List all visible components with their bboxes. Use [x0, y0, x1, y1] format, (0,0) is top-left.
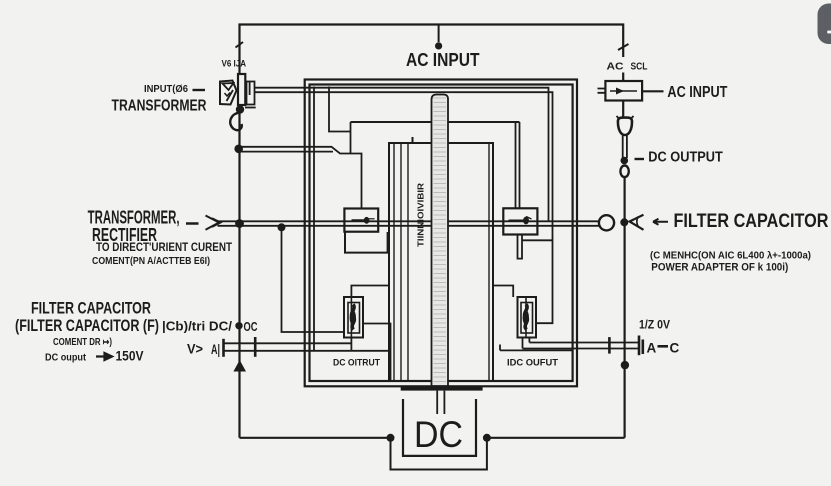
- rectifier D2 box: [503, 208, 537, 234]
- wire Q1 out right: [363, 324, 391, 382]
- wire C2 lower: [523, 348, 640, 350]
- wire Q1 bottom stub: [350, 338, 352, 351]
- wire Q2 bottom stub a: [522, 338, 524, 349]
- svg-text:AC INPUT: AC INPUT: [667, 84, 727, 101]
- svg-text:INPUT(Ø6: INPUT(Ø6: [144, 83, 188, 95]
- wire bottom rail right: [487, 437, 625, 439]
- svg-text:FILTER CAPACITOR: FILTER CAPACITOR: [31, 299, 151, 318]
- node AC input stub: [438, 25, 440, 42]
- junction dot top center: [435, 42, 442, 49]
- svg-text:C: C: [670, 341, 680, 356]
- AC inlet stub left: [598, 89, 606, 93]
- AC inlet box right: [605, 81, 642, 101]
- winding top tick: [412, 137, 414, 143]
- arrow chevron small: [212, 218, 221, 227]
- fuse F1 bracket inner pin: [249, 82, 251, 96]
- rectifier D1 sub frame: [345, 232, 388, 253]
- DC block U box: [403, 399, 476, 456]
- capacitor C1 plate right: [254, 337, 257, 357]
- fuse F1 v mark: [225, 93, 231, 97]
- AC inlet arrow: [616, 88, 624, 95]
- svg-text:V6 IJA: V6 IJA: [222, 59, 247, 69]
- node main-left crossing: [235, 219, 244, 228]
- node B on main wire: [278, 223, 286, 231]
- svg-text:A|: A|: [211, 341, 220, 357]
- svg-text:AC INPUT: AC INPUT: [406, 50, 480, 70]
- transistor Q2 interior wire: [525, 297, 527, 338]
- transistor Q2 blob: [523, 310, 529, 325]
- rectifier D2 lead: [509, 220, 529, 222]
- wire bracket branch: [329, 87, 351, 132]
- fuse F1 body pentagon: [220, 81, 237, 105]
- transistor Q1 symbol: [352, 305, 355, 330]
- wire main upper: [218, 220, 599, 222]
- wire right panel top: [500, 345, 573, 351]
- wire Q1 top link: [351, 286, 389, 298]
- wire right column upper: [622, 101, 624, 119]
- crow foot curl: [637, 217, 639, 228]
- arrow left filter label: [653, 219, 668, 225]
- node right column lower: [621, 361, 629, 369]
- svg-text:DC ouput: DC ouput: [45, 353, 87, 364]
- wire fuse upper: [255, 88, 549, 222]
- lamp L1 horn right: [630, 116, 633, 120]
- wire fuse lower: [255, 92, 553, 240]
- svg-text:FILTER CAPACITOR: FILTER CAPACITOR: [674, 211, 829, 232]
- UI tab top right: [818, 4, 831, 45]
- rectifier D1 lead right: [368, 218, 375, 220]
- rectifier D1 lead: [352, 219, 369, 221]
- tick on right top wire: [618, 44, 629, 50]
- DC block lower loop: [391, 438, 487, 470]
- transistor Q2 symbol: [525, 305, 528, 330]
- wire jog lower: [240, 151, 334, 153]
- lamp L1 horn left: [617, 116, 620, 120]
- svg-text:150V: 150V: [116, 348, 145, 364]
- transistor Q1 blob: [350, 310, 356, 325]
- wire Q2 top link: [493, 286, 513, 298]
- wire mid box left edge: [350, 122, 352, 154]
- wire bottom rail left: [240, 437, 391, 439]
- wire Q2 bottom stub b: [528, 338, 530, 343]
- dash DC output label: [635, 158, 645, 160]
- fuse F1 diagonal: [227, 90, 234, 101]
- svg-text:|Cb)/tri DC/: |Cb)/tri DC/: [162, 320, 233, 334]
- svg-text:TIINNIOIVIBIR: TIINNIOIVIBIR: [417, 183, 426, 247]
- fuse F1 bracket: [247, 82, 255, 105]
- rectifier D1 dot: [364, 217, 370, 224]
- winding box: [389, 143, 493, 381]
- transformer T1 hatch: [434, 98, 447, 382]
- transistor Q2 inner box: [521, 303, 533, 334]
- svg-text:TRANSFORMER: TRANSFORMER: [112, 97, 207, 114]
- capacitor C2 plate left: [608, 337, 611, 354]
- svg-text:DC: DC: [414, 414, 463, 455]
- AC inlet lead: [610, 90, 637, 92]
- transistor Q1 interior wire: [350, 297, 352, 338]
- capacitor C1 plate left: [222, 339, 225, 357]
- wire lamp pair: [623, 135, 627, 158]
- enclosure box outer: [305, 80, 577, 387]
- AC inlet dash right: [642, 90, 663, 92]
- tick on left top wire: [236, 42, 244, 48]
- svg-text:SCL: SCL: [631, 60, 648, 72]
- svg-text:OC: OC: [244, 319, 258, 334]
- wire main lower: [218, 225, 599, 227]
- wire right column mid: [623, 177, 625, 438]
- svg-text:1/Z 0V: 1/Z 0V: [639, 320, 670, 332]
- filter capacitor circle: [599, 215, 614, 230]
- wire C1 upper: [224, 342, 352, 344]
- transistor Q1 inner box: [348, 303, 360, 334]
- svg-text:COMENT DR ↦): COMENT DR ↦): [53, 337, 112, 348]
- wire mid box top: [351, 121, 520, 123]
- rectifier D2 dot: [523, 217, 529, 225]
- svg-text:IDC OUFUT: IDC OUFUT: [507, 358, 558, 369]
- svg-text:(C MENHC(ON AIC 6L400 λ+-1000a: (C MENHC(ON AIC 6L400 λ+-1000a): [650, 250, 811, 262]
- node DC right: [483, 434, 491, 442]
- wire from node B down to transistor Q1: [282, 227, 345, 332]
- wire stub right of node: [245, 107, 256, 109]
- svg-text:DC OUTPUT: DC OUTPUT: [648, 150, 723, 166]
- node DC output: [621, 157, 629, 165]
- fuse F1 bar: [238, 74, 245, 105]
- wire top rail: [240, 25, 624, 82]
- crow foot: [630, 215, 644, 230]
- winding lines: [394, 143, 489, 381]
- wire inner vertical x314: [313, 87, 315, 351]
- arrow chevron large: [206, 216, 220, 230]
- transistor Q2 box: [518, 297, 537, 338]
- node DC left: [387, 434, 395, 442]
- node on filter text: [235, 322, 242, 329]
- capacitor C2 plate right: [638, 336, 641, 356]
- transistor Q1 box: [344, 297, 363, 338]
- transformer T1 leg right: [443, 391, 445, 414]
- wire C2 upper: [529, 342, 639, 344]
- wire left column vertical: [238, 112, 240, 438]
- transformer T1 base bar: [401, 387, 483, 391]
- svg-text:POWER ADAPTER OF k 100i): POWER ADAPTER OF k 100i): [651, 262, 788, 274]
- rectifier D2 sub bar: [518, 235, 523, 259]
- lamp L1 oval: [618, 118, 632, 135]
- wire D2 to Q2: [522, 240, 553, 323]
- rectifier D2 tick: [526, 217, 532, 220]
- svg-text:A: A: [647, 341, 657, 356]
- svg-text:COMENT(PN A/ACTTEB E6I): COMENT(PN A/ACTTEB E6I): [92, 256, 210, 267]
- UI tab dash: [827, 31, 831, 34]
- arrow to 150V: [96, 353, 112, 360]
- fuse F1 triangle mark: [223, 83, 234, 90]
- node filter junction: [620, 218, 628, 226]
- wire mid box right pair: [516, 122, 520, 209]
- svg-text:DC OITRUT: DC OITRUT: [333, 358, 380, 369]
- transformer T1 leg left: [436, 391, 438, 414]
- svg-text:V>: V>: [187, 342, 203, 357]
- svg-text:TO DIRECT'URIENT CURENT: TO DIRECT'URIENT CURENT: [96, 240, 233, 254]
- enclosure box inner: [310, 85, 573, 382]
- wire C1 lower: [224, 350, 390, 352]
- dash after INPUT label: [193, 89, 206, 91]
- arrow up on left column: [233, 360, 246, 372]
- transformer T1 core: [432, 95, 449, 387]
- dash after A: [658, 345, 669, 348]
- svg-text:(FILTER CAPACITOR (F): (FILTER CAPACITOR (F): [15, 317, 159, 335]
- node below fuse: [236, 105, 244, 113]
- lamp L2 oval: [620, 166, 628, 178]
- node left column A: [234, 145, 243, 154]
- capacitor C2 label bar: [641, 340, 644, 355]
- svg-text:AC: AC: [607, 61, 624, 73]
- label dash before arrow: [186, 222, 199, 225]
- rectifier D1 box: [344, 209, 378, 232]
- wire jog upper to rectifier: [240, 147, 362, 209]
- inductor loop below fuse: [230, 113, 242, 131]
